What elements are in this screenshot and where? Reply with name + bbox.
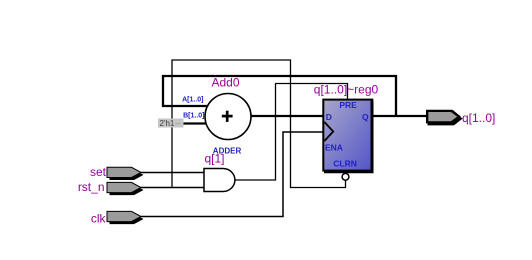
svg-text:Add0: Add0 [212,76,240,90]
svg-text:CLRN: CLRN [333,158,357,168]
svg-text:PRE: PRE [339,100,357,110]
wire: register Q to output pin (bold) [373,115,427,117]
wire: AND output to register PRE [235,84,348,181]
input pin clk [107,211,144,224]
svg-text:D: D [326,112,332,122]
svg-text:B[1..0]: B[1..0] [183,113,204,120]
wire: adder sum output to register D (bold) [249,115,323,117]
input pin set [107,167,144,180]
svg-text:ENA: ENA [325,142,343,152]
svg-text:set: set [90,165,107,179]
svg-text:rst_n: rst_n [78,180,105,194]
input pin rst_n [107,182,144,195]
svg-text:q[1]: q[1] [205,151,225,165]
svg-text:2'h1: 2'h1 [160,119,175,128]
svg-text:A[1..0]: A[1..0] [182,97,203,104]
svg-text:q[1..0]~reg0: q[1..0]~reg0 [314,83,379,97]
register q[1..0]~reg0 [323,100,372,172]
wire: rst_n pin to AND input [141,187,204,189]
svg-text:q[1..0]: q[1..0] [462,111,495,125]
gate: AND q[1] [204,169,235,192]
clock triangle [324,122,333,141]
constant 2'h1 [158,119,184,129]
op: adder Add0 [205,94,251,140]
svg-text:--: -- [175,119,181,128]
output pin q[1..0] [426,110,463,126]
wire: rst_n tap to CLRN bubble (thin) [172,60,346,188]
wire: Q feedback bus to adder A input (bold) [163,76,396,116]
CLRN bubble [342,173,349,180]
wire: constant to adder B input (bold) [183,122,208,124]
svg-text:Q: Q [362,112,369,122]
svg-text:clk: clk [91,212,107,226]
wire: clk pin to register clock [141,132,323,217]
wire: set pin to AND input [141,172,204,174]
